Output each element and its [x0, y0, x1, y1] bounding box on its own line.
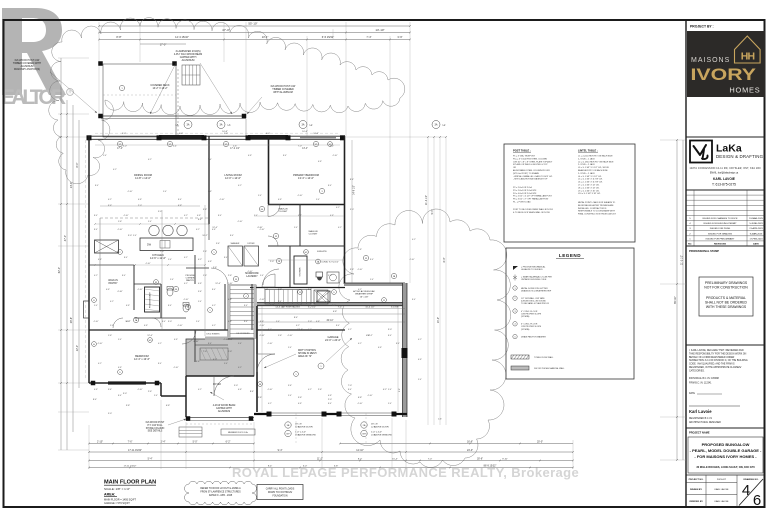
svg-text:6'-5 15/32": 6'-5 15/32": [322, 35, 334, 39]
svg-text:7'-0": 7'-0": [203, 351, 207, 353]
svg-text:5'-4": 5'-4": [103, 155, 107, 157]
svg-text:5'-4": 5'-4": [288, 347, 292, 349]
svg-text:4'-2": 4'-2": [184, 257, 188, 259]
svg-text:4'-10": 4'-10": [193, 341, 199, 343]
svg-text:2: 2: [120, 252, 121, 254]
ensuite vanity sink: [327, 272, 339, 283]
svg-text:INSTALLED. CONTRACTOR IS: INSTALLED. CONTRACTOR IS: [578, 207, 607, 210]
svg-text:& TO BE BLOCK WHEN WALL IS IN: & TO BE BLOCK WHEN WALL IS IN 2X6: [513, 211, 551, 214]
svg-text:8'-4": 8'-4": [332, 305, 336, 307]
svg-text:1: 1: [210, 310, 211, 312]
svg-text:TAKE RESPONSIBILITY FOR THE DE: TAKE RESPONSIBILITY FOR THE DESIGN WORK …: [689, 352, 747, 355]
svg-text:7'-0": 7'-0": [264, 289, 268, 291]
svg-text:DN 12 RISERS: DN 12 RISERS: [237, 333, 251, 335]
svg-text:4'-2": 4'-2": [212, 305, 216, 307]
svg-text:5'-4": 5'-4": [388, 403, 392, 405]
svg-text:2'-0": 2'-0": [328, 399, 332, 401]
rear wall over garage: [344, 283, 405, 286]
svg-text:DW OR 2X6 MECHANICAL WALL: DW OR 2X6 MECHANICAL WALL: [534, 367, 565, 370]
svg-text:2'-6": 2'-6": [318, 389, 322, 391]
svg-text:I, KARL LAVOIE, DECLARE THAT I: I, KARL LAVOIE, DECLARE THAT I REVIEWED …: [689, 349, 744, 352]
svg-text:4'-2": 4'-2": [184, 215, 188, 217]
svg-text:P3 = 2-2x4 OR 2-2x6 SPF: P3 = 2-2x4 OR 2-2x6 SPF: [513, 190, 537, 192]
svg-text:P1a = 3" 1/2x4 HSS STEEL COLUM: P1a = 3" 1/2x4 HSS STEEL COLUMN: [513, 158, 547, 160]
svg-text:SHORE IN MESH: SHORE IN MESH: [298, 353, 317, 355]
svg-text:BEAM HDR PLY ON EACH SIDE: BEAM HDR PLY ON EACH SIDE: [578, 169, 608, 172]
svg-text:9'-4": 9'-4": [268, 465, 273, 467]
svg-text:1487A CONCESSION 10-11 RD, CRY: 1487A CONCESSION 10-11 RD, CRYSLER, ONT,…: [690, 167, 762, 170]
svg-text:SCALE: 1/8" = 1'-0": SCALE: 1/8" = 1'-0": [104, 487, 130, 491]
svg-text:KARL LAVOIE: KARL LAVOIE: [715, 488, 730, 491]
svg-text:POST TABLE :: POST TABLE :: [513, 149, 531, 153]
svg-text:4'-2": 4'-2": [196, 229, 200, 231]
svg-text:4'-2": 4'-2": [383, 389, 387, 391]
svg-text:4'-10": 4'-10": [247, 271, 252, 273]
svg-text:7'-4": 7'-4": [338, 307, 343, 309]
svg-text:BE INSTALLED AFTER TRUSSES ARE: BE INSTALLED AFTER TRUSSES ARE: [578, 204, 614, 207]
svg-text:5'-4": 5'-4": [278, 301, 282, 303]
svg-text:8'-4": 8'-4": [162, 321, 166, 323]
svg-text:STONE COLUMN: STONE COLUMN: [146, 428, 165, 430]
svg-text:14'-3 15/32": 14'-3 15/32": [175, 35, 189, 39]
svg-text:ARCHITECTURAL DESIGNER: ARCHITECTURAL DESIGNER: [689, 421, 721, 424]
svg-text:- SITE & ANCHOR EA STAGE AT TO: - SITE & ANCHOR EA STAGE AT TOP: [513, 178, 548, 181]
svg-text:REGISTERED B.C.I.N: REGISTERED B.C.I.N: [689, 418, 712, 420]
svg-text:9'-4": 9'-4": [278, 449, 283, 452]
svg-text:ISSUED FOR BUILDING PERMIT: ISSUED FOR BUILDING PERMIT: [703, 223, 737, 225]
top dimension row 1: [99, 25, 410, 27]
svg-text:WASHER: WASHER: [231, 242, 240, 245]
legend wall samples: [511, 355, 529, 359]
svg-text:18' x 8': 18' x 8': [371, 424, 378, 426]
svg-text:34'-11": 34'-11": [327, 320, 334, 322]
closet walls: [299, 204, 301, 246]
svg-text:4'-2": 4'-2": [98, 363, 102, 365]
svg-text:P.L. = POINT LOAD: P.L. = POINT LOAD: [513, 201, 531, 204]
svg-text:ISSUED FOR GRADING: ISSUED FOR GRADING: [708, 232, 732, 235]
svg-text:21-APR-2023: 21-APR-2023: [749, 227, 763, 230]
porch slab edge: [186, 417, 254, 419]
svg-text:VERIFIED BY: VERIFIED BY: [689, 501, 703, 503]
svg-text:11'-2": 11'-2": [317, 457, 323, 460]
svg-text:D2: D2: [155, 282, 157, 284]
garage dim lines: [258, 308, 405, 310]
toilet 1: [167, 288, 173, 296]
svg-text:5'-4": 5'-4": [110, 325, 114, 327]
svg-text:6'-8": 6'-8": [278, 199, 282, 201]
svg-text:5'-4": 5'-4": [288, 395, 292, 397]
svg-text:18: 18: [278, 261, 280, 263]
svg-text:55'-10": 55'-10": [248, 22, 257, 26]
svg-text:6'-8": 6'-8": [316, 301, 320, 303]
garage door label B: [361, 422, 367, 428]
svg-text:3A: 3A: [435, 123, 438, 126]
svg-text:9'-10": 9'-10": [502, 458, 508, 460]
svg-text:= PROVIDE MECHANICAL: = PROVIDE MECHANICAL: [521, 266, 546, 269]
svg-text:6'-8": 6'-8": [228, 299, 232, 301]
svg-text:4'-10": 4'-10": [409, 259, 414, 261]
svg-text:5'-0": 5'-0": [193, 440, 198, 443]
svg-text:1: 1: [296, 374, 297, 376]
svg-text:REGISTERED, IN THE APPROPRIATE: REGISTERED, IN THE APPROPRIATE CLASSES/: [689, 366, 742, 369]
svg-text:CLOSET: CLOSET: [279, 211, 288, 213]
svg-text:1'-0" x 4'-0": 1'-0" x 4'-0": [371, 432, 382, 434]
svg-text:W5: W5: [119, 144, 122, 146]
svg-text:Karl Lavoie: Karl Lavoie: [689, 409, 712, 414]
garage door centerlines: [295, 413, 297, 444]
svg-text:4'-2": 4'-2": [198, 259, 202, 261]
svg-text:2'-0": 2'-0": [308, 321, 312, 323]
svg-text:W: W: [365, 258, 367, 260]
wall below ensuite: [250, 287, 345, 289]
svg-text:FOUNDATION: FOUNDATION: [272, 494, 287, 497]
rear stairs: [265, 290, 311, 305]
svg-text:47'-0": 47'-0": [222, 28, 230, 32]
svg-text:L1 = 2-2x10 HDR PLY ON EACH SI: L1 = 2-2x10 HDR PLY ON EACH SIDE: [578, 155, 613, 158]
svg-text:5'-4": 5'-4": [294, 227, 298, 229]
svg-text:L4 = 3- 1 3/4" X 9 1/2" LVL: L4 = 3- 1 3/4" X 9 1/2" LVL: [578, 176, 602, 178]
svg-text:4'-2": 4'-2": [198, 389, 202, 391]
svg-text:6'-8": 6'-8": [238, 389, 242, 391]
svg-text:6'-8": 6'-8": [118, 367, 122, 369]
svg-text:12'-4" x 13'-6": 12'-4" x 13'-6": [134, 357, 150, 361]
svg-text:2'-4": 2'-4": [161, 440, 166, 443]
svg-text:5'-4": 5'-4": [316, 199, 320, 201]
svg-text:4'-10": 4'-10": [97, 343, 102, 345]
svg-text:3'-8": 3'-8": [126, 405, 130, 407]
top dimension row 3: [99, 39, 410, 41]
svg-text:13'-4": 13'-4": [302, 148, 308, 150]
bath tub block: [145, 287, 160, 312]
svg-text:4'-10": 4'-10": [267, 343, 272, 345]
mid house wall: [89, 329, 228, 331]
svg-text:4'-10": 4'-10": [357, 269, 362, 271]
svg-text:WALK-IN: WALK-IN: [108, 279, 118, 282]
svg-text:5: 5: [514, 336, 515, 338]
drawing number table: [686, 474, 765, 476]
svg-text:6'-8": 6'-8": [138, 199, 142, 201]
svg-text:ISSUED FOR PRELIMINARY: ISSUED FOR PRELIMINARY: [706, 237, 735, 240]
svg-text:24'-0": 24'-0": [467, 449, 473, 452]
garage door label A: [285, 422, 291, 428]
svg-text:6'-8": 6'-8": [208, 191, 212, 193]
bedroom2 front wall: [89, 382, 161, 384]
post and lintel table box: [504, 144, 635, 242]
svg-text:8'-4": 8'-4": [158, 363, 162, 365]
svg-text:5'-4": 5'-4": [118, 339, 122, 341]
shaft closet: [314, 290, 328, 304]
svg-text:PROJECT BY :: PROJECT BY :: [690, 25, 714, 29]
pantry walls: [133, 265, 135, 310]
svg-text:POST TO BLOCKED REINF WALL B I: POST TO BLOCKED REINF WALL B IN 2X4: [513, 208, 554, 211]
revision cloud right: [339, 209, 511, 468]
svg-text:5'-4": 5'-4": [108, 389, 112, 391]
svg-text:DEADBOLTS & WEATHERSTRIP: DEADBOLTS & WEATHERSTRIP: [521, 289, 552, 292]
svg-text:6'-8": 6'-8": [248, 155, 252, 157]
svg-text:W5: W5: [315, 144, 318, 146]
svg-text:1'-6": 1'-6": [118, 221, 122, 223]
svg-text:6'-8": 6'-8": [106, 289, 110, 291]
dining/living wall: [208, 136, 210, 224]
svg-text:W4: W4: [329, 144, 332, 146]
svg-text:19-MAR-2025: 19-MAR-2025: [749, 217, 763, 220]
svg-text:KIT AND OR WELD & BOLTED & TOP: KIT AND OR WELD & BOLTED & TOP: [513, 163, 548, 166]
revision table: [686, 190, 765, 246]
living/bedroom wall: [268, 136, 270, 204]
top dimension row 2: [99, 32, 410, 34]
svg-text:DRYER: DRYER: [248, 243, 256, 245]
svg-text:BEHALF OF A FIRM REGISTERED UN: BEHALF OF A FIRM REGISTERED UNDER: [689, 356, 735, 359]
svg-text:L3 ABOVE WINDOW: L3 ABOVE WINDOW: [371, 433, 393, 436]
svg-text:4'-10": 4'-10": [223, 339, 228, 341]
svg-text:4'-2": 4'-2": [296, 325, 300, 327]
svg-text:5'-4": 5'-4": [163, 191, 167, 193]
svg-text:7'-0": 7'-0": [428, 458, 433, 460]
svg-text:17'-11 15/32": 17'-11 15/32": [128, 449, 142, 452]
svg-text:4'-2": 4'-2": [358, 343, 362, 345]
svg-text:6'-8": 6'-8": [208, 261, 212, 263]
door arcs interior: [268, 205, 280, 217]
deck beam: [101, 115, 246, 117]
svg-text:HOMES: HOMES: [729, 86, 760, 95]
svg-text:L10 = 3- 1 3/4" X 18" LVL: L10 = 3- 1 3/4" X 18" LVL: [578, 193, 601, 195]
bedroom front window bar: [108, 381, 146, 384]
svg-text:W: W: [299, 292, 301, 294]
svg-text:6'-8": 6'-8": [378, 347, 382, 349]
bottom dimension rows: [89, 443, 254, 445]
svg-text:- FOR MAISONS IVORY HOMES -: - FOR MAISONS IVORY HOMES -: [694, 454, 757, 459]
svg-text:DRAIN PAN FOR WASHER: DRAIN PAN FOR WASHER: [521, 335, 546, 338]
svg-text:6'-8": 6'-8": [358, 249, 362, 251]
svg-text:PANTRY: PANTRY: [108, 282, 118, 285]
svg-text:ENSUITE: ENSUITE: [317, 251, 327, 253]
svg-text:ISSUED FOR CHANGES TO ROOF: ISSUED FOR CHANGES TO ROOF: [702, 217, 738, 220]
svg-text:14'-6 1/2": 14'-6 1/2": [354, 185, 356, 195]
svg-text:4'-10": 4'-10": [177, 325, 182, 327]
svg-text:8'-4": 8'-4": [244, 305, 248, 307]
svg-text:1'-6": 1'-6": [278, 335, 282, 337]
svg-text:9-MAR-2023: 9-MAR-2023: [750, 232, 763, 235]
small circled refs: [173, 286, 178, 291]
roof overhang dashed offsets: [85, 140, 87, 380]
svg-text:CAPPED WITH: CAPPED WITH: [216, 407, 232, 410]
left dimension lines: [60, 58, 62, 450]
svg-text:3'-0": 3'-0": [128, 235, 132, 237]
svg-text:CODE. I AM QUALIFIED, AND THE: CODE. I AM QUALIFIED, AND THE FIRM IS: [689, 363, 735, 366]
svg-text:FINAL CONSTRUCTION TRUSS LAYOU: FINAL CONSTRUCTION TRUSS LAYOUT: [578, 213, 617, 216]
svg-text:4'-0": 4'-0": [266, 133, 270, 135]
svg-text:6'-8": 6'-8": [318, 161, 322, 163]
svg-text:6'-8": 6'-8": [333, 311, 337, 313]
svg-text:14'-6 1/2": 14'-6 1/2": [275, 307, 284, 309]
svg-text:5'-0": 5'-0": [122, 133, 126, 135]
svg-text:7'-6": 7'-6": [128, 440, 133, 443]
svg-text:4: 4: [246, 296, 247, 298]
svg-text:DRAWN BY: DRAWN BY: [690, 488, 702, 491]
svg-text:6'-2": 6'-2": [226, 440, 231, 443]
svg-text:8'-4": 8'-4": [94, 229, 98, 231]
svg-text:24'-0" x 24'-0": 24'-0" x 24'-0": [325, 338, 341, 342]
svg-text:MASONRY ANCHOR(S): MASONRY ANCHOR(S): [14, 68, 40, 71]
kitchen left counter appliance: [95, 240, 119, 253]
svg-text:4'-2": 4'-2": [110, 301, 114, 303]
svg-text:METAL DOWN C/W GUTTER: METAL DOWN C/W GUTTER: [521, 287, 548, 290]
svg-text:2- STUD + 2 JACK: 2- STUD + 2 JACK: [578, 172, 596, 175]
svg-text:8'-4": 8'-4": [122, 275, 126, 277]
svg-text:15'-4": 15'-4": [392, 458, 398, 460]
svg-text:16" x 48": 16" x 48": [360, 296, 369, 298]
svg-text:4'-10": 4'-10": [117, 229, 122, 231]
svg-text:W5: W5: [225, 144, 228, 146]
svg-text:5-JUNE-2023: 5-JUNE-2023: [749, 223, 763, 225]
svg-text:4'-2": 4'-2": [108, 199, 112, 201]
svg-text:5'-4": 5'-4": [168, 259, 172, 261]
svg-text:L8 = 4- 1 3/4" X 14" LVL: L8 = 4- 1 3/4" X 14" LVL: [578, 187, 600, 189]
svg-text:3'-0": 3'-0": [303, 465, 308, 467]
svg-text:PANTRY: PANTRY: [186, 279, 195, 282]
svg-text:DESIGN & DRAFTING: DESIGN & DRAFTING: [716, 154, 764, 159]
svg-text:ISSUED FOR P.ENG: ISSUED FOR P.ENG: [710, 228, 731, 230]
svg-text:6'-8": 6'-8": [418, 359, 422, 361]
svg-text:4'-10": 4'-10": [259, 325, 264, 327]
svg-text:2: 2: [514, 298, 515, 300]
svg-text:ADJUSTABLE STEEL COLUMN BY UFR: ADJUSTABLE STEEL COLUMN BY UFR: [513, 169, 550, 172]
svg-text:12'-0" x 14'-0": 12'-0" x 14'-0": [225, 176, 241, 180]
svg-text:5'-4": 5'-4": [198, 301, 202, 303]
title block divider: [685, 20, 687, 507]
svg-text:CONSL TL 9'-6 1/2": CONSL TL 9'-6 1/2": [321, 262, 339, 264]
svg-text:47'-0": 47'-0": [64, 235, 67, 241]
svg-text:5'-4": 5'-4": [418, 379, 422, 381]
svg-text:IVORY: IVORY: [691, 66, 757, 84]
svg-text:2'-6": 2'-6": [228, 275, 232, 277]
svg-text:TOWEL IN DW WALL: TOWEL IN DW WALL: [534, 356, 554, 359]
svg-text:DATE: DATE: [753, 243, 759, 246]
svg-text:SEE DETAILS: SEE DETAILS: [148, 430, 163, 433]
svg-text:24'-0": 24'-0": [437, 317, 440, 323]
preliminary drawings box: [699, 277, 753, 316]
svg-text:EMAIL: karl@lakadesign.ca: EMAIL: karl@lakadesign.ca: [710, 171, 739, 174]
svg-text:METAL POINT LOADS FOR SHEARS T: METAL POINT LOADS FOR SHEARS TO: [578, 201, 616, 204]
svg-text:5'-4": 5'-4": [208, 159, 212, 161]
svg-text:4'-2": 4'-2": [298, 305, 302, 307]
svg-text:GARAGE = 576 SQ/FT: GARAGE = 576 SQ/FT: [104, 502, 130, 505]
svg-text:4'-2": 4'-2": [348, 329, 352, 331]
svg-text:D6: D6: [175, 289, 177, 291]
svg-text:4'-2": 4'-2": [268, 403, 272, 405]
svg-text:4'-10": 4'-10": [259, 229, 264, 231]
svg-text:LINTEL TABLE :: LINTEL TABLE :: [578, 149, 598, 153]
svg-text:2'-8": 2'-8": [399, 388, 401, 392]
svg-text:DN 2 RISERS: DN 2 RISERS: [206, 334, 220, 336]
svg-text:8'-4": 8'-4": [370, 259, 374, 261]
svg-text:3'-0": 3'-0": [388, 329, 392, 331]
svg-text:8'-8": 8'-8": [116, 35, 121, 39]
svg-text:5'-0": 5'-0": [224, 133, 228, 135]
svg-text:2'-10": 2'-10": [97, 440, 103, 443]
svg-text:3: 3: [514, 311, 515, 313]
svg-text:MEMBER RUCS S.A.: MEMBER RUCS S.A.: [228, 431, 249, 434]
svg-text:8'-4": 8'-4": [124, 257, 128, 259]
svg-text:3A: 3A: [187, 123, 190, 126]
garage right wall: [403, 283, 408, 417]
deck dashed edge: [177, 69, 179, 136]
svg-text:DATE: DATE: [689, 392, 695, 395]
svg-text:L2 = 3- 2X10 HDR PLY ON EACH S: L2 = 3- 2X10 HDR PLY ON EACH SIDE: [578, 160, 614, 163]
svg-text:3'-8": 3'-8": [308, 289, 312, 291]
svg-text:INDIVIDUAL B.C.I.N: 105998: INDIVIDUAL B.C.I.N: 105998: [689, 377, 720, 380]
svg-text:W3: W3: [149, 340, 152, 342]
svg-text:14'-6" x 12'-0": 14'-6" x 12'-0": [150, 256, 166, 260]
svg-text:8'-4": 8'-4": [412, 299, 416, 301]
svg-text:(STD 4x4 POST) TO FRAME: (STD 4x4 POST) TO FRAME: [513, 172, 540, 175]
svg-text:4'-10": 4'-10": [123, 215, 128, 217]
svg-text:KARL LAVOIE: KARL LAVOIE: [715, 500, 730, 503]
svg-text:12'-0": 12'-0": [76, 345, 79, 351]
svg-text:20'-0": 20'-0": [537, 440, 543, 443]
svg-text:4'-10": 4'-10": [227, 283, 232, 285]
svg-text:17'-4": 17'-4": [117, 148, 123, 150]
legend box: [506, 248, 634, 379]
svg-text:FOYER: FOYER: [213, 384, 221, 386]
svg-text:8'-0": 8'-0": [358, 458, 363, 460]
svg-text:L9 = 3- 1 3/4" X 16" LVL: L9 = 3- 1 3/4" X 16" LVL: [578, 190, 600, 192]
svg-text:8'-4": 8'-4": [294, 317, 298, 319]
svg-text:5'-4": 5'-4": [148, 457, 153, 460]
svg-text:L5 = 3- 1 3/4" X 11 7/8" LVL: L5 = 3- 1 3/4" X 11 7/8" LVL: [578, 179, 603, 181]
svg-text:5'-8": 5'-8": [334, 465, 339, 467]
svg-text:L2 ABOVE DOOR: L2 ABOVE DOOR: [295, 425, 313, 428]
professional stamp section: [686, 245, 765, 247]
svg-text:MAIN FLOOR PLAN: MAIN FLOOR PLAN: [104, 480, 156, 486]
svg-text:3'-0": 3'-0": [123, 393, 127, 395]
svg-text:21'-3 1/2": 21'-3 1/2": [425, 195, 428, 205]
hall stub walls: [194, 255, 196, 284]
svg-text:8'-4": 8'-4": [118, 395, 122, 397]
svg-text:CLOSET: CLOSET: [309, 234, 318, 236]
svg-text:D4: D4: [261, 209, 263, 211]
svg-text:62'-0": 62'-0": [58, 267, 61, 273]
svg-text:4'-10": 4'-10": [93, 321, 98, 323]
svg-text:5'-4": 5'-4": [196, 321, 200, 323]
svg-text:L3 ABOVE WINDOW: L3 ABOVE WINDOW: [295, 433, 317, 436]
svg-text:ROYAL LEPAGE PERFORMANCE REALT: ROYAL LEPAGE PERFORMANCE REALTY, Brokera…: [232, 465, 579, 480]
svg-text:7'-4": 7'-4": [366, 35, 371, 39]
stairs: [228, 285, 256, 338]
svg-text:1'-6": 1'-6": [108, 335, 112, 337]
svg-text:17'-2 1/2": 17'-2 1/2": [230, 148, 240, 150]
svg-text:1: 1: [121, 88, 122, 90]
svg-text:WALK-IN: WALK-IN: [308, 230, 317, 233]
svg-text:13'-4": 13'-4": [262, 35, 269, 39]
svg-text:LaKa: LaKa: [716, 143, 742, 155]
svg-text:30 MILLE ROCHES, LONG SAULT, O: 30 MILLE ROCHES, LONG SAULT, ON, K0C 1P0: [696, 465, 755, 469]
svg-text:8'-4": 8'-4": [94, 215, 98, 217]
svg-text:P5 = 2 1/2" x 5 1/2" OPT PARAL: P5 = 2 1/2" x 5 1/2" OPT PARALLAM POST: [513, 195, 553, 198]
svg-text:DRAWING NO.: DRAWING NO.: [743, 478, 758, 481]
svg-text:FROM ST-LAWRENCE STRUCTURES: FROM ST-LAWRENCE STRUCTURES: [200, 490, 241, 493]
svg-text:6'-8": 6'-8": [98, 259, 102, 261]
svg-text:DIRTY PORTION: DIRTY PORTION: [298, 350, 316, 352]
svg-text:6'-8": 6'-8": [358, 397, 362, 399]
laka logo square: [690, 141, 712, 163]
svg-text:4'-2": 4'-2": [212, 325, 216, 327]
svg-text:5'-4": 5'-4": [198, 291, 202, 293]
svg-text:L6 = 2- 1 3/4" X 11 7/8" LVL: L6 = 2- 1 3/4" X 11 7/8" LVL: [578, 182, 603, 184]
svg-text:11'-8" x 14'-0": 11'-8" x 14'-0": [135, 176, 151, 180]
svg-text:4'-2": 4'-2": [238, 367, 242, 369]
svg-text:4'-10": 4'-10": [117, 291, 123, 293]
